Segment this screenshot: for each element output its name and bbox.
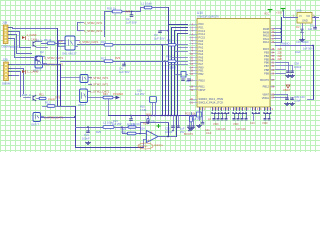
svg-text:OK5 ?: OK5 ? [31,123,39,127]
svg-text:BOOT0: BOOT0 [184,132,194,136]
svg-text:4_STM2_DAT1: 4_STM2_DAT1 [44,56,64,60]
svg-text:L1 10uH: L1 10uH [141,2,152,6]
svg-text:OK4 ?: OK4 ? [78,103,86,107]
svg-text:U3A: U3A [296,9,302,13]
svg-text:DB9M: DB9M [2,45,11,49]
svg-text:J1B: J1B [2,21,7,25]
svg-text:17.8k: 17.8k [140,108,147,112]
svg-text:VDDA: VDDA [262,96,269,100]
svg-text:C24 C25: C24 C25 [216,128,226,131]
svg-text:R26: R26 [146,113,151,117]
svg-text:C36 100nF: C36 100nF [296,40,309,44]
svg-text:1uF 50V: 1uF 50V [154,36,165,40]
svg-text:NRST: NRST [199,88,206,92]
svg-text:DB9M: DB9M [2,82,11,86]
svg-text:1_STM2_INT1: 1_STM2_INT1 [84,29,103,33]
svg-text:C38: C38 [294,62,299,66]
svg-text:1uF 50V: 1uF 50V [303,47,313,51]
svg-text:R12: R12 [45,101,50,105]
svg-text:10uF: 10uF [295,51,301,54]
svg-text:1uF 50V: 1uF 50V [126,20,137,24]
svg-text:4_STM2_INT1: 4_STM2_INT1 [90,76,109,80]
svg-text:VBAT: VBAT [283,88,290,92]
svg-text:10uF: 10uF [206,132,212,135]
svg-text:J2B: J2B [3,58,8,62]
svg-text:GND: GND [302,19,308,23]
svg-text:FB3: FB3 [166,55,171,59]
svg-text:X2 8M: X2 8M [168,66,176,70]
svg-text:1_CAN0: 1_CAN0 [27,70,39,74]
svg-text:PB12: PB12 [263,85,270,89]
svg-text:2.2uF: 2.2uF [294,98,301,102]
svg-text:2_STM2_INT1: 2_STM2_INT1 [84,21,103,25]
svg-text:C29: C29 [250,122,255,125]
svg-text:VO: VO [306,14,310,18]
svg-text:C27 C28: C27 C28 [236,128,246,131]
svg-text:+: + [147,138,149,142]
svg-text:100nF: 100nF [82,136,90,140]
svg-text:R11: R11 [39,93,44,97]
svg-text:U10: U10 [197,11,203,15]
svg-text:1uF 25V: 1uF 25V [135,93,145,96]
svg-text:C21: C21 [84,133,89,137]
svg-text:VCC: VCC [264,12,270,16]
svg-text:1_CAN0: 1_CAN0 [27,33,37,37]
svg-text:L2 10uH: L2 10uH [103,121,114,125]
svg-text:220: 220 [278,57,283,61]
svg-text:PC13: PC13 [199,29,206,33]
svg-text:PB9: PB9 [264,71,269,75]
svg-text:POWER: POWER [113,92,123,96]
svg-text:SWCLK_PA14_JTCK: SWCLK_PA14_JTCK [199,101,224,105]
svg-text:R25: R25 [96,130,101,134]
svg-text:2_STM2_DAT1: 2_STM2_DAT1 [44,116,64,120]
svg-text:VDD: VDD [213,122,219,126]
svg-text:R8 1k: R8 1k [44,38,52,42]
svg-text:3_STM2_INT1: 3_STM2_INT1 [90,82,109,86]
svg-text:PB2: PB2 [199,72,204,76]
svg-text:VI: VI [299,14,302,18]
svg-text:-: - [147,132,148,136]
svg-text:PA12: PA12 [263,40,270,44]
svg-text:VDD: VDD [262,121,268,125]
svg-text:STM32F103RCT6: STM32F103RCT6 [197,15,219,19]
svg-text:PB3: PB3 [264,51,269,55]
svg-text:100nF: 100nF [294,65,302,69]
svg-text:3V3: 3V3 [115,56,121,60]
svg-text:3V3: 3V3 [125,10,131,14]
svg-text:OK1 6N137: OK1 6N137 [62,52,77,56]
svg-text:2_STM2_DAT1: 2_STM2_DAT1 [79,40,99,44]
svg-text:BOOT0: BOOT0 [260,78,269,82]
svg-text:opamp+: opamp+ [154,144,164,147]
svg-text:PB7: PB7 [264,64,269,68]
svg-text:R22 10k: R22 10k [185,112,196,116]
svg-text:VDD: VDD [233,122,239,126]
svg-text:D2: D2 [296,25,300,29]
svg-text:RXD_A: RXD_A [10,45,19,49]
svg-text:PB10: PB10 [199,79,206,83]
svg-text:DAT_A: DAT_A [22,93,31,97]
svg-text:1uF 50V: 1uF 50V [119,70,130,74]
svg-text:R26: R26 [143,122,148,126]
svg-text:+3V3: +3V3 [276,11,283,15]
svg-text:Q2: Q2 [40,50,44,54]
svg-text:C26 10n: C26 10n [131,123,141,126]
svg-text:opamp-: opamp- [139,145,148,148]
svg-text:R13: R13 [103,93,108,96]
svg-text:1uF: 1uF [308,28,313,31]
svg-text:PA2: PA2 [199,45,204,49]
svg-text:1uF 25V: 1uF 25V [192,117,202,121]
svg-text:SWDIO: SWDIO [281,43,290,46]
svg-text:FB2: FB2 [167,39,172,43]
svg-text:C39 C40: C39 C40 [294,95,305,99]
svg-text:22p: 22p [186,80,191,83]
svg-text:PA7: PA7 [199,62,204,66]
